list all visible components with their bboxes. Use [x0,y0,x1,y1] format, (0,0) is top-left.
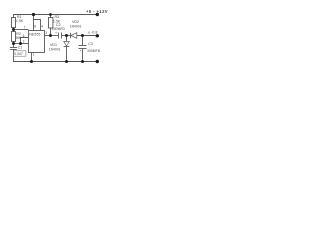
svg-text:+: + [80,49,82,53]
node pin6 branch [19,42,22,45]
node terminal out [96,34,99,37]
svg-text:VD2: VD2 [72,20,79,24]
svg-text:+: + [55,31,57,35]
label box for C1 value [14,51,26,56]
svg-text:2: 2 [23,40,25,44]
svg-text:7: 7 [24,26,26,30]
node pin1 gnd [30,60,33,63]
resistor R3 [50,15,52,18]
svg-text:330MFD: 330MFD [87,49,101,53]
svg-text:0.047: 0.047 [14,52,23,56]
svg-text:3: 3 [45,31,47,35]
capacitor C3 [82,36,84,46]
diode VD1 [66,36,68,42]
diode VD2 [70,33,72,39]
node terminal gnd [96,60,99,63]
node top R3 junction [49,13,52,16]
svg-text:6: 6 [23,34,25,38]
node VD1 gnd [65,60,68,63]
svg-text:4: 4 [41,25,43,29]
node C3 top [81,34,84,37]
wire pin3 [45,35,59,37]
svg-text:8: 8 [34,25,36,29]
svg-text:1.5K: 1.5K [16,19,24,23]
wire to node A [62,35,71,37]
wire pin1 [31,53,33,62]
svg-text:39K: 39K [15,36,22,40]
capacitor C1 [13,44,15,48]
node A [65,34,68,37]
node top pin8 junction [32,13,35,16]
node R1/R2 pin7 [12,28,15,31]
resistor R1 [13,15,15,18]
svg-text:1N4001: 1N4001 [49,48,61,52]
node terminal V+ [96,13,99,16]
node C3 gnd [81,60,84,63]
svg-text:C1: C1 [18,46,23,50]
wire pin4 [34,20,41,31]
wire bottom rail [13,61,98,63]
svg-text:330MFD: 330MFD [52,27,66,31]
svg-text:u -0.8: u -0.8 [88,31,98,35]
node R2/C1 [12,42,15,45]
wire pin7 [14,29,29,31]
IC U1 NE555 [29,31,45,53]
svg-text:1: 1 [33,53,35,57]
svg-text:NE555: NE555 [29,32,40,36]
capacitor C2 [58,33,60,39]
wire node 2/6 [14,43,29,45]
svg-text:+5 - +12V: +5 - +12V [86,9,108,14]
wire pin8 [33,15,35,31]
svg-text:1N4001: 1N4001 [70,24,82,28]
wire top rail [13,14,98,16]
node pin3/R3 [49,34,52,37]
svg-text:VD1: VD1 [50,43,57,47]
wire pin6 branch [21,38,29,44]
resistor R2 [13,30,15,32]
svg-text:C3: C3 [88,42,93,46]
